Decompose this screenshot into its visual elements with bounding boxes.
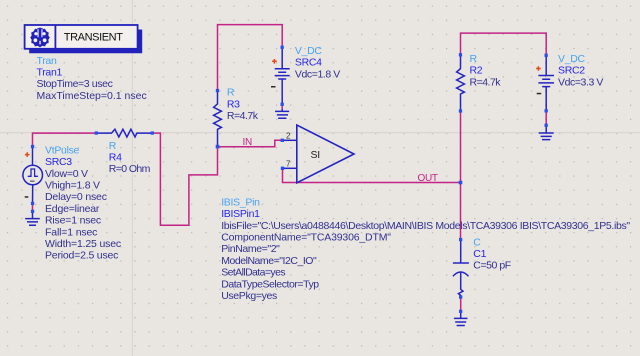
- pin squares and junctions: [31, 46, 548, 313]
- origin axis horizontal line: [0, 132, 640, 134]
- svg-text:SRC3: SRC3: [45, 156, 72, 168]
- svg-text:Vlow=0 V: Vlow=0 V: [45, 168, 88, 180]
- wire SRC4 to ground: [281, 104, 283, 109]
- ground below SRC3: [25, 211, 40, 225]
- wire pin 7 to OUT junction: [283, 170, 461, 183]
- battery V_DC SRC4: [275, 47, 290, 104]
- svg-text:V_DC: V_DC: [295, 45, 323, 57]
- SRC3 minus: [25, 196, 29, 198]
- svg-text:Edge=linear: Edge=linear: [45, 203, 100, 215]
- wire IN node to pin 2: [218, 140, 282, 147]
- TRANSIENT controller block shadow: [29, 30, 142, 54]
- svg-text:R: R: [109, 140, 117, 152]
- pin 7 lead: [284, 167, 297, 169]
- svg-text:C1: C1: [473, 248, 486, 260]
- SRC4 minus: [271, 86, 276, 88]
- SRC3 ref mark: [30, 180, 35, 182]
- SRC2 minus: [537, 93, 542, 95]
- wire R4 to IN node (step route): [152, 133, 217, 225]
- wire SRC3 to R4: [33, 133, 97, 147]
- vtpulse source SRC3: [23, 147, 43, 203]
- svg-text:Tran: Tran: [37, 55, 57, 67]
- svg-text:R3: R3: [227, 98, 240, 110]
- svg-text:IBISPin1: IBISPin1: [221, 208, 260, 220]
- SRC2 plus: [536, 66, 541, 71]
- IBIS_Pin parameters: [221, 220, 630, 302]
- svg-text:UsePkg=yes: UsePkg=yes: [221, 290, 277, 302]
- ground below SRC4: [275, 109, 289, 119]
- svg-text:R: R: [470, 53, 478, 65]
- gear cylinder cap: [38, 28, 43, 29]
- svg-text:PinName="2": PinName="2": [221, 243, 280, 255]
- svg-text:OUT: OUT: [418, 173, 438, 184]
- wire supply rail R3 to SRC4: [218, 25, 283, 91]
- wire R2 bottom to C1 top (through OUT junction): [460, 111, 462, 240]
- svg-text:Period=2.5 usec: Period=2.5 usec: [45, 250, 118, 262]
- svg-text:Vhigh=1.8 V: Vhigh=1.8 V: [45, 180, 100, 192]
- svg-text:ModelName="I2C_IO": ModelName="I2C_IO": [221, 255, 317, 267]
- svg-text:R2: R2: [470, 65, 483, 77]
- wire supply rail R2 to SRC2: [461, 33, 547, 55]
- svg-text:R=0 Ohm: R=0 Ohm: [109, 163, 151, 175]
- svg-text:SetAllData=yes: SetAllData=yes: [221, 267, 285, 279]
- svg-text:V_DC: V_DC: [558, 53, 586, 65]
- origin axis vertical line: [131, 0, 133, 356]
- wire SRC2 to ground: [545, 111, 547, 125]
- svg-text:TRANSIENT: TRANSIENT: [64, 31, 123, 43]
- SRC3 parameters: [45, 168, 121, 262]
- wire C1 to ground: [460, 297, 462, 311]
- svg-text:IBIS_Pin: IBIS_Pin: [221, 196, 260, 208]
- svg-text:C=50 pF: C=50 pF: [473, 260, 511, 272]
- TRANSIENT icon cell separator: [54, 25, 56, 49]
- SRC3 plus: [25, 152, 30, 157]
- svg-text:Fall=1 nsec: Fall=1 nsec: [45, 226, 97, 238]
- resistor R3: [214, 91, 222, 147]
- svg-text:Vdc=1.8 V: Vdc=1.8 V: [295, 68, 340, 80]
- SRC3 pulse glyph: [28, 169, 38, 176]
- svg-text:Vdc=3.3 V: Vdc=3.3 V: [558, 76, 603, 88]
- svg-text:C: C: [473, 236, 481, 248]
- svg-text:SRC4: SRC4: [295, 57, 322, 69]
- ground below C1: [454, 311, 468, 325]
- svg-text:Rise=1 nsec: Rise=1 nsec: [45, 215, 101, 227]
- svg-text:IbisFile="C:\Users\a0488446\De: IbisFile="C:\Users\a0488446\Desktop\MAIN…: [221, 220, 630, 232]
- svg-text:Tran1: Tran1: [37, 67, 63, 79]
- capacitor C1: [453, 240, 469, 298]
- TRANSIENT gear icon: [30, 28, 50, 48]
- wire SRC3 to ground: [32, 203, 34, 211]
- ground below SRC2: [539, 125, 554, 139]
- resistor R2: [457, 55, 465, 111]
- svg-text:Width=1.25 usec: Width=1.25 usec: [45, 238, 121, 250]
- svg-text:StopTime=3 usec: StopTime=3 usec: [37, 78, 113, 90]
- resistor R4: [96, 129, 152, 137]
- svg-text:ComponentName="TCA39306_DTM": ComponentName="TCA39306_DTM": [221, 232, 391, 244]
- svg-text:VtPulse: VtPulse: [45, 144, 80, 156]
- svg-text:R: R: [227, 87, 235, 99]
- svg-text:MaxTimeStep=0.1 nsec: MaxTimeStep=0.1 nsec: [37, 90, 147, 102]
- svg-text:R=4.7k: R=4.7k: [227, 110, 259, 122]
- svg-text:DataTypeSelector=Typ: DataTypeSelector=Typ: [221, 278, 319, 290]
- svg-text:SI: SI: [311, 149, 320, 161]
- svg-text:IN: IN: [243, 137, 252, 148]
- battery V_DC SRC2: [538, 55, 554, 111]
- SRC4 plus: [272, 59, 277, 64]
- svg-text:R=4.7k: R=4.7k: [470, 76, 502, 88]
- svg-text:R4: R4: [109, 152, 122, 164]
- op-amp buffer SI (IBIS_Pin symbol): [297, 125, 354, 183]
- TRANSIENT controller box: [25, 25, 138, 49]
- svg-text:Delay=0 nsec: Delay=0 nsec: [45, 191, 107, 203]
- svg-text:SRC2: SRC2: [558, 65, 585, 77]
- Tran parameters: [37, 78, 147, 102]
- pin 2 lead: [284, 139, 297, 141]
